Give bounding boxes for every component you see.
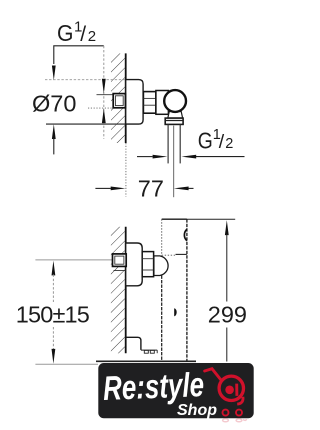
svg-text:2: 2: [88, 28, 96, 45]
svg-text:Ø70: Ø70: [32, 90, 76, 116]
svg-text:/: /: [219, 131, 225, 153]
svg-text:/: /: [80, 23, 86, 46]
svg-text:77: 77: [138, 176, 164, 202]
svg-text:150±15: 150±15: [16, 302, 90, 328]
svg-text:Shop: Shop: [177, 402, 217, 419]
svg-text:G: G: [57, 20, 73, 46]
svg-text:G: G: [198, 129, 213, 154]
svg-text:2: 2: [225, 136, 233, 152]
svg-text:299: 299: [208, 302, 247, 328]
